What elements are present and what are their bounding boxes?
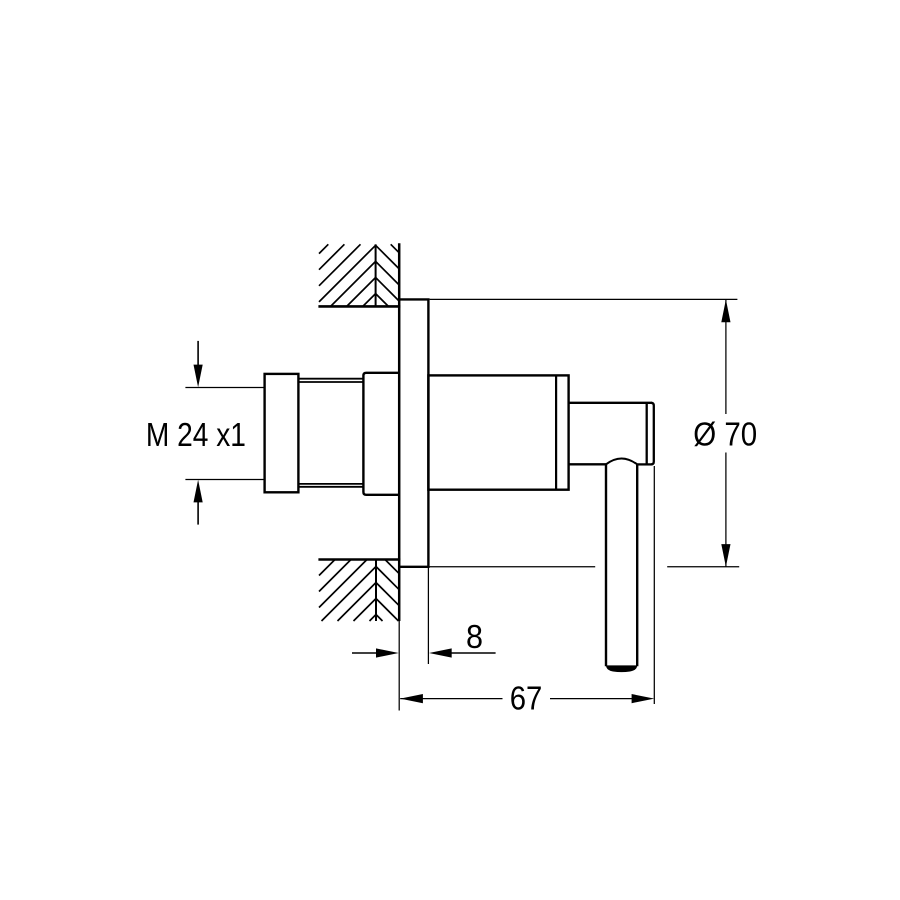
wall face extension line (to 67 dimension) [398, 621, 400, 711]
hub end-cap right edge with rounded corners [651, 403, 654, 465]
handle stem bottom edge (right of lever) [637, 463, 652, 465]
dimension 67 line left segment [400, 698, 502, 700]
cartridge housing cylinder [428, 375, 568, 489]
dimension 8 right arrowhead [429, 648, 452, 657]
svg-text:67: 67 [510, 680, 543, 717]
wall section hatch (upper) chevron strip lines [376, 244, 400, 306]
dimension M24x1 lower line [185, 479, 264, 481]
dimension M24x1 lower arrowhead [194, 480, 203, 503]
housing front ring line [555, 375, 557, 489]
lever bottom cap [606, 665, 637, 672]
dimension D70 top arrowhead [721, 300, 730, 323]
wall face line / rosette left edge [398, 243, 401, 621]
wall section hatch (upper) diagonal lines [319, 244, 376, 306]
dimension D70 bottom extension line (left of lever) [428, 566, 595, 568]
wall section hatch (lower) diagonal lines [319, 560, 376, 622]
wall surface edge (upper wall underside) [318, 305, 400, 308]
lever right edge [636, 464, 638, 666]
dimension D70 vertical line lower part [725, 453, 727, 567]
svg-text:8: 8 [466, 618, 483, 655]
lever left edge [605, 464, 607, 666]
wall section hatch (lower) chevron strip lines [376, 560, 399, 622]
thread flange nut (left) [265, 374, 299, 492]
dimension 67 right arrowhead [632, 694, 655, 703]
collar inside wall [363, 373, 399, 495]
dimension M24x1 upper arrowhead [194, 365, 203, 388]
dimension 8 left tail line [352, 652, 377, 654]
hub end-cap inner line [646, 403, 648, 465]
dimension 67 left arrowhead [400, 694, 423, 703]
dimension 8 right tail line [452, 652, 496, 654]
dimension D70 bottom arrowhead [721, 544, 730, 567]
handle stem top edge [569, 402, 652, 404]
dimension D70 bottom extension line (right of lever) [667, 566, 739, 568]
thread cylinder M24x1 double lines top [298, 378, 363, 380]
handle stem bottom edge (left of lever) [569, 463, 607, 465]
wall section hatch (upper) divider line [375, 244, 377, 306]
dimension 8 extension line (rosette face) [427, 568, 429, 664]
svg-text:Ø 70: Ø 70 [693, 416, 757, 453]
dimension 67 right extension line (lever tip plane) [653, 466, 655, 704]
wall surface edge (lower wall topside) [318, 558, 400, 561]
lever top dome [606, 458, 637, 464]
dimension D70 top extension line [430, 298, 738, 300]
svg-text:M 24 x1: M 24 x1 [146, 416, 246, 453]
dimension M24x1 upper arrow leader [197, 341, 199, 368]
dimension 8 left arrowhead [376, 648, 399, 657]
dimension M24x1 lower arrow leader [197, 499, 199, 525]
dimension M24x1 upper line [185, 387, 264, 389]
dimension D70 vertical line upper part [725, 300, 727, 415]
dimension 67 line right segment [550, 698, 632, 700]
escutcheon rosette plate (Ø70) [399, 299, 428, 566]
thread cylinder M24x1 double lines bottom [298, 483, 363, 485]
wall section hatch (lower) divider line [375, 560, 377, 622]
